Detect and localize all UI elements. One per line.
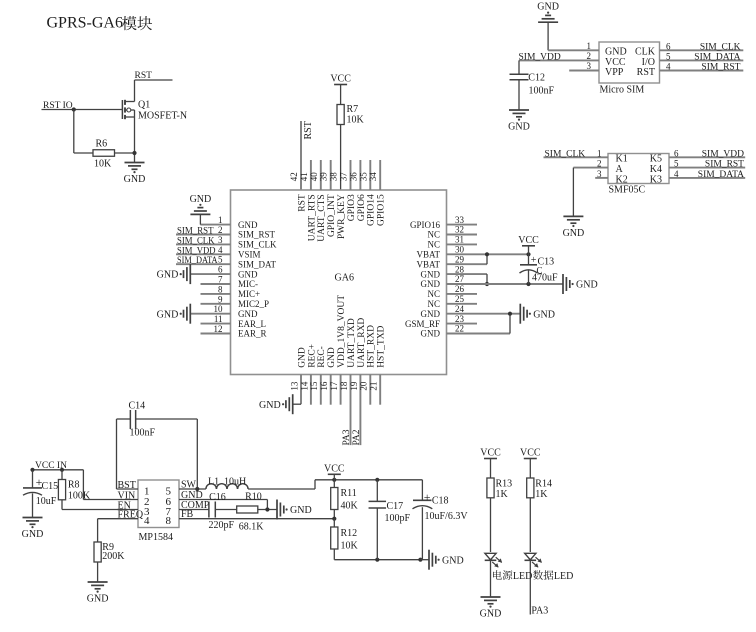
svg-text:MIC2_P: MIC2_P [238, 299, 269, 309]
svg-text:3: 3 [597, 169, 602, 179]
svg-text:33: 33 [455, 215, 465, 225]
svg-text:C15: C15 [42, 481, 59, 492]
svg-text:VCC IN: VCC IN [35, 461, 67, 471]
svg-text:GPIO15: GPIO15 [377, 194, 387, 226]
svg-text:GND: GND [421, 269, 441, 279]
svg-text:GND: GND [442, 555, 464, 566]
svg-text:3: 3 [218, 235, 223, 245]
svg-text:R14: R14 [535, 479, 552, 490]
svg-text:C16: C16 [209, 492, 226, 503]
svg-text:R10: R10 [245, 492, 262, 503]
svg-text:NC: NC [427, 299, 440, 309]
svg-text:SIM_DATA: SIM_DATA [177, 256, 218, 266]
svg-text:GND: GND [87, 594, 109, 605]
svg-text:16: 16 [319, 381, 329, 391]
svg-text:C14: C14 [129, 401, 146, 412]
svg-text:40K: 40K [341, 501, 359, 512]
svg-text:R12: R12 [341, 528, 358, 539]
svg-text:32: 32 [455, 225, 464, 235]
svg-text:1K: 1K [496, 489, 509, 500]
svg-text:GA6: GA6 [335, 273, 354, 284]
svg-text:UART_CTS: UART_CTS [317, 194, 327, 241]
svg-text:RST IO: RST IO [43, 101, 73, 111]
svg-text:VCC: VCC [520, 448, 541, 459]
svg-text:NC: NC [427, 230, 440, 240]
svg-text:100nF: 100nF [130, 428, 156, 439]
svg-text:Micro SIM: Micro SIM [600, 85, 645, 96]
svg-text:100K: 100K [68, 491, 91, 502]
svg-text:12: 12 [214, 324, 223, 334]
svg-text:GND: GND [297, 347, 307, 368]
svg-text:SIM_VDD: SIM_VDD [702, 149, 744, 159]
svg-text:GND: GND [537, 2, 559, 13]
svg-text:REC-: REC- [317, 346, 327, 368]
svg-text:GND: GND [157, 270, 179, 281]
svg-text:EAR_R: EAR_R [238, 329, 267, 339]
svg-text:4: 4 [218, 245, 223, 255]
svg-text:GPIO_INT: GPIO_INT [327, 194, 337, 237]
svg-text:C17: C17 [387, 501, 404, 512]
svg-text:SIM_DATA: SIM_DATA [698, 170, 744, 180]
svg-text:HST_RXD: HST_RXD [367, 325, 377, 368]
svg-text:5: 5 [218, 255, 223, 265]
svg-text:Q1: Q1 [138, 100, 150, 111]
svg-text:39: 39 [319, 172, 329, 182]
svg-text:24: 24 [455, 304, 465, 314]
svg-text:GPIO14: GPIO14 [367, 194, 377, 226]
svg-text:PA2: PA2 [352, 429, 362, 445]
svg-text:SIM_CLK: SIM_CLK [177, 236, 215, 246]
svg-text:UART_TXD: UART_TXD [347, 318, 357, 368]
svg-text:VCC: VCC [330, 74, 351, 85]
svg-text:SIM_DATA: SIM_DATA [694, 52, 740, 62]
svg-text:R13: R13 [496, 479, 513, 490]
svg-text:NC: NC [427, 240, 440, 250]
svg-text:R11: R11 [341, 488, 357, 499]
svg-text:18: 18 [339, 381, 349, 391]
svg-text:10K: 10K [94, 159, 112, 170]
svg-text:220pF: 220pF [209, 520, 235, 531]
svg-text:8: 8 [166, 515, 172, 527]
svg-text:R6: R6 [96, 139, 108, 150]
svg-text:100nF: 100nF [529, 86, 555, 97]
svg-text:20: 20 [359, 381, 369, 391]
svg-text:19: 19 [349, 381, 359, 391]
svg-text:VPP: VPP [605, 67, 624, 78]
svg-text:1: 1 [218, 215, 223, 225]
svg-text:11: 11 [214, 314, 223, 324]
svg-text:GND: GND [259, 400, 281, 411]
svg-text:1: 1 [597, 148, 602, 158]
svg-text:26: 26 [455, 284, 465, 294]
svg-text:VCC: VCC [480, 448, 501, 459]
svg-text:LED: LED [554, 571, 573, 582]
svg-text:SIM_RST: SIM_RST [705, 160, 744, 170]
svg-text:31: 31 [455, 235, 464, 245]
svg-text:200K: 200K [102, 551, 125, 562]
svg-text:68.1K: 68.1K [239, 522, 264, 533]
svg-text:GND: GND [576, 280, 598, 291]
svg-text:RST: RST [297, 194, 307, 212]
svg-text:100pF: 100pF [385, 513, 411, 524]
svg-text:PA3: PA3 [342, 429, 352, 445]
svg-text:7: 7 [218, 275, 223, 285]
svg-text:GND: GND [290, 505, 312, 516]
svg-text:GND: GND [563, 228, 585, 239]
svg-text:GND: GND [190, 194, 212, 205]
svg-text:GPIO3: GPIO3 [347, 194, 357, 221]
svg-text:10uF: 10uF [36, 496, 57, 507]
svg-text:VBAT: VBAT [416, 250, 440, 260]
svg-text:34: 34 [368, 172, 378, 182]
svg-text:GND: GND [157, 309, 179, 320]
svg-text:10K: 10K [341, 541, 359, 552]
svg-text:40: 40 [309, 172, 319, 182]
svg-text:SIM_CLK: SIM_CLK [545, 149, 586, 159]
svg-text:37: 37 [339, 172, 349, 182]
svg-text:GND: GND [22, 529, 44, 540]
svg-text:6: 6 [218, 265, 223, 275]
svg-text:3: 3 [587, 61, 592, 71]
svg-text:25: 25 [455, 294, 465, 304]
svg-text:41: 41 [299, 172, 309, 181]
svg-text:GND: GND [238, 309, 258, 319]
svg-text:8: 8 [218, 284, 223, 294]
svg-text:470uF: 470uF [532, 273, 558, 284]
svg-text:SIM_RST: SIM_RST [177, 227, 214, 237]
svg-text:GND: GND [508, 122, 530, 133]
svg-text:15: 15 [309, 381, 319, 391]
svg-text:10K: 10K [347, 115, 365, 126]
svg-text:36: 36 [348, 172, 358, 182]
svg-text:17: 17 [329, 381, 339, 391]
svg-text:27: 27 [455, 274, 465, 284]
svg-text:MIC-: MIC- [238, 279, 258, 289]
svg-text:GND: GND [421, 329, 441, 339]
svg-text:SIM_RST: SIM_RST [238, 230, 276, 240]
svg-text:VDD_1V8_VOUT: VDD_1V8_VOUT [337, 295, 347, 368]
svg-text:C18: C18 [432, 496, 449, 507]
svg-text:GND: GND [327, 347, 337, 368]
svg-text:MIC+: MIC+ [238, 289, 260, 299]
svg-text:K2: K2 [616, 174, 628, 185]
svg-text:35: 35 [358, 172, 368, 182]
svg-text:2: 2 [218, 225, 223, 235]
svg-text:R8: R8 [68, 480, 80, 491]
svg-text:1: 1 [587, 41, 592, 51]
svg-text:GND: GND [421, 279, 441, 289]
svg-text:PA3: PA3 [531, 605, 548, 616]
svg-text:SIM_CLK: SIM_CLK [700, 42, 741, 52]
svg-text:GPIO16: GPIO16 [410, 220, 441, 230]
svg-text:L1: L1 [208, 477, 219, 488]
svg-text:HST_TXD: HST_TXD [377, 325, 387, 367]
svg-text:GND: GND [480, 609, 502, 620]
svg-text:+: + [531, 255, 537, 266]
svg-text:UART_RTS: UART_RTS [307, 194, 317, 241]
svg-text:RST: RST [637, 67, 655, 78]
svg-text:29: 29 [455, 254, 465, 264]
svg-text:GND: GND [238, 269, 258, 279]
svg-text:K3: K3 [650, 174, 662, 185]
svg-text:REC+: REC+ [307, 344, 317, 368]
svg-text:MP1584: MP1584 [139, 532, 173, 543]
svg-text:GND: GND [238, 220, 258, 230]
svg-text:VCC: VCC [324, 464, 345, 475]
svg-text:21: 21 [369, 382, 379, 391]
svg-text:VBAT: VBAT [416, 259, 440, 269]
svg-text:PWR_KEY: PWR_KEY [337, 194, 347, 239]
svg-text:22: 22 [455, 324, 464, 334]
svg-text:SIM_VDD: SIM_VDD [177, 246, 216, 256]
svg-text:C12: C12 [528, 73, 545, 84]
svg-text:NC: NC [427, 289, 440, 299]
svg-text:RST: RST [303, 121, 314, 139]
svg-text:2: 2 [597, 159, 602, 169]
svg-text:EAR_L: EAR_L [238, 319, 266, 329]
svg-text:28: 28 [455, 264, 465, 274]
svg-text:SIM_RST: SIM_RST [701, 63, 740, 73]
svg-text:SIM_DAT: SIM_DAT [238, 259, 277, 269]
svg-text:2: 2 [587, 51, 592, 61]
svg-text:UART_RXD: UART_RXD [357, 318, 367, 368]
svg-text:VCC: VCC [518, 235, 539, 246]
svg-text:13: 13 [289, 381, 299, 391]
svg-text:SIM_CLK: SIM_CLK [238, 240, 277, 250]
svg-text:GPRS-GA6: GPRS-GA6 [47, 15, 123, 32]
svg-text:14: 14 [299, 381, 309, 391]
svg-text:10: 10 [214, 304, 224, 314]
svg-text:SIM_VDD: SIM_VDD [519, 52, 561, 62]
svg-text:1K: 1K [535, 489, 548, 500]
svg-text:9: 9 [218, 294, 223, 304]
svg-text:10uH: 10uH [224, 477, 246, 488]
svg-text:LED: LED [513, 571, 532, 582]
svg-text:30: 30 [455, 245, 465, 255]
svg-text:42: 42 [289, 172, 299, 181]
svg-text:23: 23 [455, 314, 465, 324]
svg-text:MOSFET-N: MOSFET-N [138, 111, 187, 122]
svg-text:VSIM: VSIM [238, 250, 261, 260]
svg-text:GND: GND [124, 174, 146, 185]
svg-text:38: 38 [329, 172, 339, 182]
svg-text:GSM_RF: GSM_RF [405, 319, 440, 329]
svg-text:GND: GND [533, 309, 555, 320]
svg-text:RST: RST [135, 71, 153, 81]
svg-text:GND: GND [421, 309, 441, 319]
svg-text:R7: R7 [347, 104, 359, 115]
svg-text:SMF05C: SMF05C [609, 185, 646, 196]
svg-text:4: 4 [144, 515, 150, 527]
svg-text:10uF/6.3V: 10uF/6.3V [425, 511, 469, 522]
svg-text:GPIO6: GPIO6 [357, 194, 367, 221]
svg-text:+: + [424, 490, 431, 504]
